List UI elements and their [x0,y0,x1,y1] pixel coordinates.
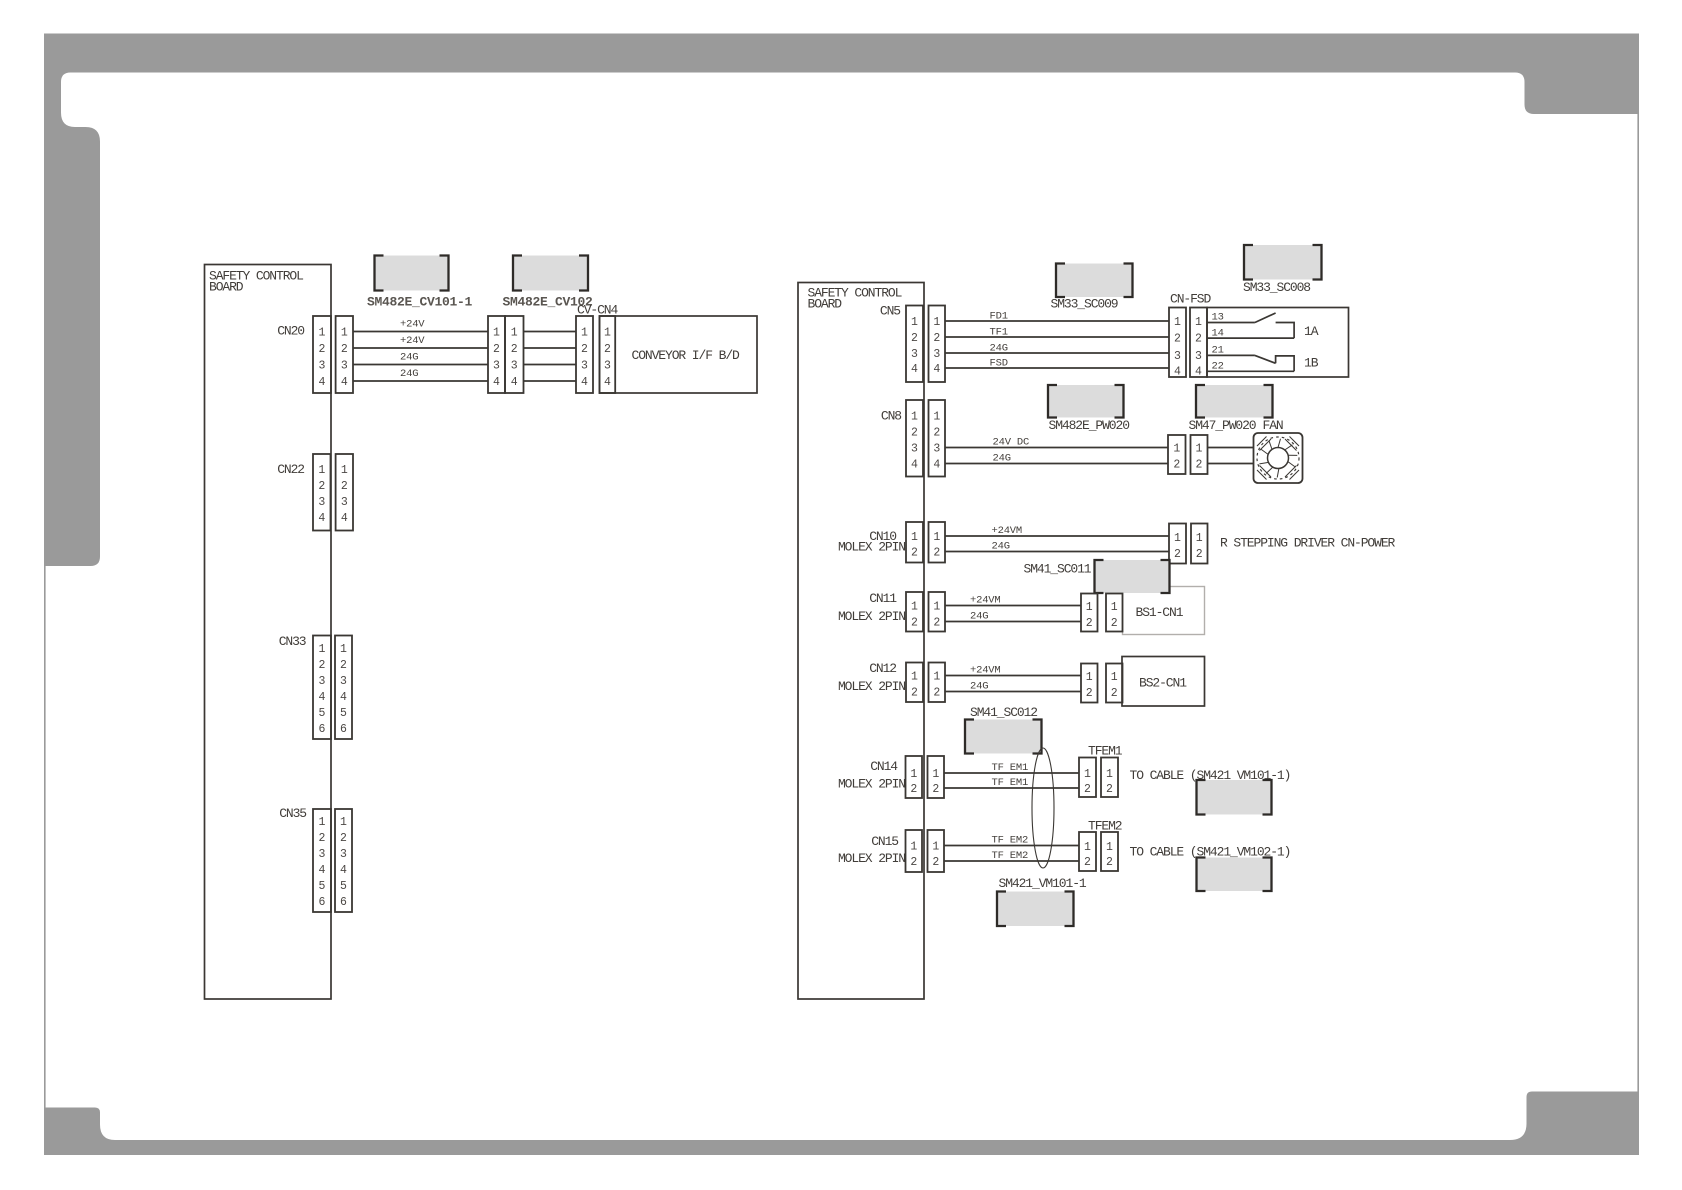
connector CN-FSD plug [1169,308,1186,379]
svg-text:4: 4 [933,363,940,376]
svg-text:4: 4 [319,691,326,704]
svg-text:2: 2 [1174,548,1181,561]
svg-text:2: 2 [932,783,939,796]
connector CV-CN4 label [577,303,619,318]
connector CN11 pin header on board [906,592,923,632]
svg-text:2: 2 [319,343,326,356]
svg-text:2: 2 [341,343,348,356]
svg-text:2: 2 [1195,333,1202,346]
svg-text:1: 1 [1111,601,1118,614]
TFEM1 connector header [1101,758,1118,798]
svg-text:1: 1 [932,841,939,854]
page frame: right border line [1637,113,1639,1092]
svg-text:CN20: CN20 [277,324,304,339]
svg-text:6: 6 [340,723,347,736]
svg-text:SM33_SC008: SM33_SC008 [1243,280,1310,295]
wire 24G (CN20 pin3) [353,352,488,365]
wire fan 24V [1208,447,1254,449]
cable cover SM482E_PW020 [1048,385,1124,418]
svg-text:1: 1 [1196,532,1203,545]
svg-text:6: 6 [319,723,326,736]
svg-text:6: 6 [319,896,326,909]
connector TFEM1 label [1088,744,1123,759]
svg-text:1: 1 [1174,316,1181,329]
svg-text:1: 1 [911,531,918,544]
svg-text:1A: 1A [1304,324,1319,339]
svg-text:2: 2 [1173,459,1180,472]
svg-text:2: 2 [911,547,918,560]
connector CN33 mating plug [335,636,352,740]
svg-text:SM41_SC011: SM41_SC011 [1024,562,1092,577]
svg-text:3: 3 [319,675,326,688]
svg-text:2: 2 [493,343,500,356]
label TO CABLE (SM421_VM101-1) [1130,768,1291,783]
svg-text:CONVEYOR I/F B/D: CONVEYOR I/F B/D [632,348,741,363]
svg-text:1: 1 [933,671,940,684]
wire +24VM (CN10 pin1) [945,525,1169,537]
BS1 connector header [1106,594,1123,632]
wire CV102 pin3 [524,364,577,366]
svg-text:2: 2 [911,332,918,345]
connector CN22 label [277,462,304,477]
connector CN35 mating plug [335,809,352,912]
svg-text:4: 4 [911,459,918,472]
svg-text:2: 2 [1111,687,1118,700]
board: CONVEYOR I/F B/D [600,316,758,393]
connector CN22 mating plug [336,454,353,531]
svg-text:4: 4 [341,376,348,389]
svg-text:3: 3 [319,360,326,373]
connector CN20 mating plug [336,316,353,393]
svg-text:1: 1 [1086,601,1093,614]
svg-text:24G: 24G [992,541,1010,553]
connector CN-FSD header on switch unit [1190,308,1207,379]
cable label SM41_SC011 [1024,562,1092,577]
connector CN20 pin header on board [313,316,331,393]
svg-text:1: 1 [911,411,918,424]
svg-text:2: 2 [318,480,325,493]
svg-text:4: 4 [1174,366,1181,379]
inline connector pair (CV101 to CV102) right half [505,316,524,393]
board: SAFETY CONTROL BOARD (left) [205,265,332,1000]
svg-text:5: 5 [340,880,347,893]
wire CV102 pin4 [524,380,577,382]
wire 24G (CN11 pin2) [945,611,1081,623]
svg-text:SM482E_PW020: SM482E_PW020 [1049,418,1130,433]
svg-text:3: 3 [318,496,325,509]
svg-text:4: 4 [340,864,347,877]
cable cover SM47_PW020 [1196,385,1273,418]
connector CN11 label [838,591,905,624]
svg-text:MOLEX 2PIN: MOLEX 2PIN [838,540,905,555]
svg-text:+24VM: +24VM [992,525,1023,537]
svg-text:3: 3 [493,360,500,373]
svg-text:MOLEX 2PIN: MOLEX 2PIN [838,777,905,792]
TFEM2 connector header [1101,832,1118,871]
svg-text:2: 2 [911,427,918,440]
svg-text:3: 3 [1195,350,1202,363]
stepping driver connector header [1191,524,1208,564]
switch 1B label [1304,356,1319,371]
svg-text:SM33_SC009: SM33_SC009 [1051,297,1118,312]
connector CN35 label [279,806,306,821]
svg-text:1: 1 [341,327,348,340]
svg-text:2: 2 [1174,333,1181,346]
BS2 connector plug [1081,664,1098,703]
svg-text:CN15: CN15 [871,834,898,849]
connector CN33 label [279,634,306,649]
svg-text:2: 2 [910,783,917,796]
svg-text:24G: 24G [400,352,418,364]
wire TF EM1 (CN14 pin1) [944,762,1079,774]
page frame: top gray band with left tab [44,34,1639,567]
cable label SM33_SC008 [1243,280,1310,295]
cable label SM421_VM101-1 [999,876,1087,891]
svg-text:1: 1 [1195,316,1202,329]
cable cover SM482E_CV102 [513,256,588,291]
svg-text:24G: 24G [990,342,1008,354]
svg-text:TF EM2: TF EM2 [992,850,1029,862]
svg-text:2: 2 [340,659,347,672]
svg-text:+24VM: +24VM [970,665,1001,677]
svg-text:1: 1 [910,841,917,854]
svg-text:24G: 24G [993,453,1011,465]
svg-text:SM41_SC012: SM41_SC012 [970,705,1037,720]
svg-text:CN33: CN33 [279,634,306,649]
svg-text:2: 2 [933,547,940,560]
svg-text:1: 1 [911,601,918,614]
switch pin label 21 [1212,345,1224,357]
fan connector plug [1168,435,1186,474]
connector CN20 label [277,324,304,339]
cable cover SM33_SC008 [1244,245,1322,280]
connector CN33 pin header on board [313,636,331,740]
svg-text:1: 1 [1084,768,1091,781]
svg-text:BOARD: BOARD [808,297,843,312]
cable label SM41_SC012 [970,705,1037,720]
svg-text:1: 1 [1084,841,1091,854]
svg-text:1: 1 [1196,443,1203,456]
svg-text:1: 1 [1106,768,1113,781]
wire TF1 (CN5 pin2) [945,326,1169,338]
svg-text:2: 2 [319,832,326,845]
svg-text:CN12: CN12 [869,661,896,676]
svg-text:3: 3 [319,848,326,861]
svg-text:1: 1 [581,327,588,340]
svg-text:MOLEX 2PIN: MOLEX 2PIN [838,851,905,866]
svg-text:3: 3 [933,348,940,361]
svg-text:24G: 24G [970,611,988,623]
connector CN15 label [838,834,905,866]
cable cover SM41_SC012 [965,720,1042,754]
svg-text:1: 1 [1106,841,1113,854]
svg-text:3: 3 [604,360,611,373]
svg-text:4: 4 [933,459,940,472]
svg-text:SM482E_CV101-1: SM482E_CV101-1 [367,295,473,310]
svg-text:2: 2 [1084,783,1091,796]
svg-text:24V DC: 24V DC [993,437,1030,449]
svg-text:SM47_PW020: SM47_PW020 [1189,418,1256,433]
connector CN35 pin header on board [313,809,331,912]
wire fan 24G [1208,463,1254,465]
svg-text:3: 3 [340,848,347,861]
svg-text:1: 1 [911,671,918,684]
wire 24G (CN5 pin3) [945,342,1169,354]
svg-text:1: 1 [318,464,325,477]
svg-text:1: 1 [910,768,917,781]
switch 1B contact wiring [1207,355,1294,371]
svg-text:4: 4 [318,512,325,525]
cable cover (SM421_VM101-1) [1197,780,1272,815]
connector CV-CN4 header on conveyor board [600,316,616,393]
svg-text:1: 1 [933,531,940,544]
svg-text:1: 1 [319,327,326,340]
svg-text:1: 1 [604,327,611,340]
cable cover (SM421_VM102-1) [1197,858,1272,892]
svg-text:4: 4 [341,512,348,525]
connector CN-FSD label [1170,292,1212,307]
svg-text:3: 3 [511,360,518,373]
connector CN15 pin header on board [906,830,923,872]
svg-text:3: 3 [911,348,918,361]
svg-text:2: 2 [933,687,940,700]
svg-text:3: 3 [911,443,918,456]
switch 1A label [1304,324,1319,339]
connector CN11 mating plug [929,592,946,632]
svg-text:1: 1 [341,464,348,477]
svg-text:2: 2 [1111,617,1118,630]
svg-text:4: 4 [604,376,611,389]
wire FD1 (CN5 pin1) [945,310,1169,322]
wire 24G (CN20 pin4) [353,368,488,381]
svg-text:2: 2 [933,427,940,440]
svg-text:24G: 24G [400,368,418,380]
label R STEPPING DRIVER CN-POWER [1220,536,1396,551]
connector CN5 label [880,304,900,319]
connector CN5 mating plug [929,306,946,383]
wire +24VM (CN11 pin1) [945,595,1081,607]
FSD switch unit box [1207,308,1349,378]
wire +24VM (CN12 pin1) [945,665,1081,677]
connector CN5 pin header on board [906,306,923,383]
cable cover SM482E_CV101-1 [375,256,449,291]
svg-text:TFEM1: TFEM1 [1088,744,1123,759]
svg-text:CN14: CN14 [870,759,898,774]
svg-text:2: 2 [910,856,917,869]
connector CN22 pin header on board [313,454,331,531]
svg-text:3: 3 [581,360,588,373]
cable cover SM421_VM101-1 [997,892,1074,927]
svg-text:+24VM: +24VM [970,595,1001,607]
wire FSD (CN5 pin4) [945,357,1169,369]
svg-text:2: 2 [511,343,518,356]
svg-text:2: 2 [1106,783,1113,796]
connector CV-CN4 plug [576,316,593,393]
page frame: bottom gray band with corner tabs [44,1092,1639,1156]
cable label SM482E_CV101-1 [367,295,473,310]
svg-text:FSD: FSD [990,357,1008,369]
svg-text:1: 1 [1173,443,1180,456]
label TO CABLE (SM421_VM102-1) [1130,845,1291,860]
TFEM1 connector plug [1079,758,1096,798]
svg-text:5: 5 [319,880,326,893]
svg-text:2: 2 [911,687,918,700]
svg-text:1: 1 [1174,532,1181,545]
svg-text:2: 2 [1106,856,1113,869]
svg-text:1: 1 [932,768,939,781]
connector CN14 mating plug [928,756,945,798]
svg-text:TF EM2: TF EM2 [992,835,1029,847]
svg-text:3: 3 [341,360,348,373]
svg-text:1: 1 [1111,671,1118,684]
svg-text:R STEPPING DRIVER CN-POWER: R STEPPING DRIVER CN-POWER [1220,536,1396,551]
FAN label [1263,418,1283,433]
svg-text:2: 2 [340,832,347,845]
svg-text:2: 2 [581,343,588,356]
svg-text:2: 2 [933,617,940,630]
stepping driver connector plug [1169,524,1186,564]
svg-text:3: 3 [1174,350,1181,363]
svg-text:2: 2 [1196,459,1203,472]
svg-text:2: 2 [1196,548,1203,561]
svg-text:1: 1 [493,327,500,340]
svg-text:4: 4 [511,376,518,389]
svg-text:CN11: CN11 [869,591,897,606]
fan connector header [1191,435,1208,474]
svg-text:CN5: CN5 [880,304,900,319]
svg-text:BS2-CN1: BS2-CN1 [1139,676,1187,691]
svg-text:1: 1 [340,816,347,829]
inline connector pair (CV101 to CV102) left half [488,316,505,393]
svg-text:CN-FSD: CN-FSD [1170,292,1212,307]
connector CN15 mating plug [928,830,945,872]
svg-text:+24V: +24V [400,335,425,347]
cable label SM482E_CV102 [503,295,594,310]
svg-text:4: 4 [319,376,326,389]
connector CN10 mating plug [929,522,946,563]
wire TF EM1 (CN14 pin2) [944,777,1079,789]
connector CN14 pin header on board [906,756,923,798]
svg-text:CN8: CN8 [881,409,901,424]
svg-text:2: 2 [933,332,940,345]
svg-text:FD1: FD1 [990,310,1008,322]
svg-text:BOARD: BOARD [209,280,244,295]
svg-text:1: 1 [340,643,347,656]
switch pin label 13 [1212,312,1224,324]
wire +24V (CN20 pin1) [353,319,488,332]
svg-text:3: 3 [933,443,940,456]
svg-text:CN35: CN35 [279,806,306,821]
svg-text:2: 2 [932,856,939,869]
svg-text:1B: 1B [1304,356,1319,371]
cable bundle ellipse [1032,748,1054,868]
svg-text:FAN: FAN [1263,418,1283,433]
board: BS1-CN1 [1123,587,1205,635]
svg-text:BS1-CN1: BS1-CN1 [1136,605,1184,620]
svg-text:2: 2 [604,343,611,356]
svg-text:TF EM1: TF EM1 [992,762,1029,774]
connector CN10 label [838,529,905,555]
page frame: left border line [44,566,46,1108]
svg-text:MOLEX 2PIN: MOLEX 2PIN [838,679,905,694]
cable cover SM41_SC011 [1095,560,1170,593]
connector CN8 pin header on board [906,400,923,477]
svg-text:2: 2 [1084,856,1091,869]
svg-text:4: 4 [493,376,500,389]
connector CN12 label [838,661,905,694]
svg-text:5: 5 [319,707,326,720]
wire 24G (CN12 pin2) [945,681,1081,693]
wire 24G (CN8 pin4) [945,453,1168,465]
connector CN10 pin header on board [906,522,923,563]
svg-text:+24V: +24V [400,319,425,331]
svg-text:1: 1 [933,411,940,424]
svg-text:2: 2 [319,659,326,672]
board: BS2-CN1 [1122,657,1205,707]
svg-text:1: 1 [1086,671,1093,684]
switch pin label 22 [1212,361,1224,373]
svg-text:1: 1 [911,316,918,329]
cable label SM47_PW020 [1189,418,1256,433]
svg-text:1: 1 [319,643,326,656]
connector TFEM2 label [1088,819,1122,834]
connector CN14 label [838,759,905,792]
wire CV102 pin1 [524,331,577,333]
svg-text:1: 1 [511,327,518,340]
svg-text:2: 2 [1086,687,1093,700]
connector CN8 label [881,409,901,424]
svg-text:TF EM1: TF EM1 [992,777,1029,789]
svg-text:24G: 24G [970,681,988,693]
svg-text:4: 4 [911,363,918,376]
svg-text:2: 2 [911,617,918,630]
svg-text:CN22: CN22 [277,462,304,477]
svg-text:2: 2 [341,480,348,493]
svg-text:1: 1 [933,316,940,329]
wire TF EM2 (CN15 pin1) [944,835,1079,847]
svg-text:1: 1 [319,816,326,829]
wire 24G (CN10 pin2) [945,541,1169,553]
switch pin label 14 [1212,328,1224,340]
wire +24V (CN20 pin2) [353,335,488,348]
board: SAFETY CONTROL BOARD (right) [798,283,924,1000]
connector CN12 pin header on board [906,663,923,703]
svg-text:4: 4 [1195,366,1202,379]
switch 1A contact wiring [1207,313,1294,338]
BS1 connector plug [1081,594,1098,632]
wire 24V DC (CN8 pin3) [945,437,1168,449]
svg-text:6: 6 [340,896,347,909]
BS2 connector header [1106,664,1123,703]
svg-text:1: 1 [933,601,940,614]
cable label SM33_SC009 [1051,297,1118,312]
cable cover SM33_SC009 [1056,264,1133,298]
svg-text:MOLEX 2PIN: MOLEX 2PIN [838,609,905,624]
svg-text:TF1: TF1 [990,326,1008,338]
svg-text:3: 3 [341,496,348,509]
wire CV102 pin2 [524,347,577,349]
connector CN12 mating plug [929,663,946,703]
wire TF EM2 (CN15 pin2) [944,850,1079,862]
svg-text:2: 2 [1086,617,1093,630]
FAN symbol [1254,433,1303,483]
svg-text:4: 4 [581,376,588,389]
svg-text:5: 5 [340,707,347,720]
TFEM2 connector plug [1079,832,1096,871]
svg-text:SM421_VM101-1: SM421_VM101-1 [999,876,1087,891]
connector CN8 mating plug [929,400,946,477]
cable label SM482E_PW020 [1049,418,1130,433]
